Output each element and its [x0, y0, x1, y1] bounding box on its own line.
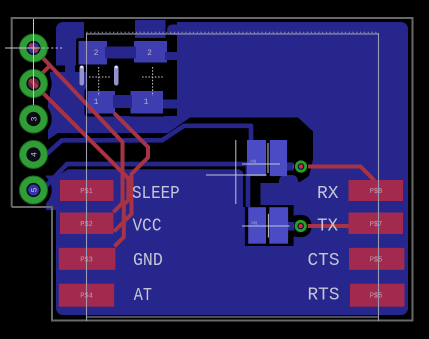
- svg-text:P$5: P$5: [370, 256, 383, 264]
- svg-text:RX: RX: [317, 184, 339, 204]
- svg-text:>N: >N: [251, 221, 257, 227]
- svg-text:4: 4: [30, 152, 39, 157]
- svg-text:P$8: P$8: [370, 188, 383, 196]
- svg-text:1: 1: [94, 98, 99, 107]
- svg-text:P$7: P$7: [370, 221, 383, 229]
- svg-text:CTS: CTS: [308, 251, 340, 271]
- svg-text:P$1: P$1: [80, 188, 93, 196]
- svg-text:>N: >N: [250, 159, 256, 165]
- svg-text:VCC: VCC: [133, 217, 162, 237]
- svg-text:RTS: RTS: [308, 286, 340, 306]
- svg-text:P$2: P$2: [80, 221, 93, 229]
- svg-text:2: 2: [147, 49, 152, 58]
- svg-text:P$5: P$5: [370, 293, 383, 301]
- svg-text:GND: GND: [133, 251, 163, 271]
- svg-text:SLEEP: SLEEP: [132, 184, 180, 204]
- svg-text:AT: AT: [134, 286, 152, 306]
- svg-text:5: 5: [30, 187, 39, 192]
- svg-text:P$3: P$3: [80, 256, 93, 264]
- svg-text:2: 2: [94, 49, 99, 58]
- svg-text:1: 1: [144, 98, 149, 107]
- svg-text:P$4: P$4: [80, 293, 93, 301]
- svg-text:3: 3: [30, 116, 39, 121]
- svg-text:TX: TX: [317, 217, 338, 237]
